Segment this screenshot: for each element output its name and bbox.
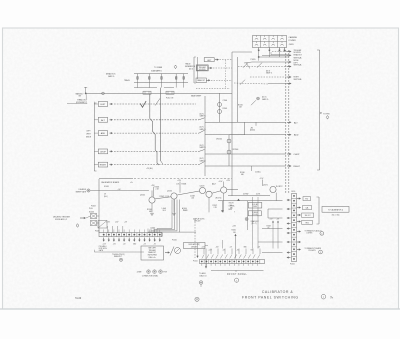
svg-text:4: 4 [321, 233, 322, 235]
svg-text:+15V: +15V [103, 243, 106, 245]
svg-text:(DLY): (DLY) [200, 127, 205, 129]
svg-text:R1011: R1011 [232, 230, 237, 232]
svg-text:VR1564: VR1564 [233, 149, 239, 151]
svg-text:LEFT: LEFT [100, 104, 106, 106]
svg-text:VERTICAL: VERTICAL [294, 64, 302, 67]
svg-text:TO PIN: TO PIN [323, 114, 330, 116]
svg-text:Q1566: Q1566 [167, 190, 172, 192]
svg-text:F1063: F1063 [91, 206, 96, 208]
svg-text:FOR S/DIV: FOR S/DIV [99, 248, 108, 250]
svg-text:+5V: +5V [143, 243, 146, 245]
svg-text:+2V (B-L): +2V (B-L) [146, 168, 153, 170]
svg-text:Q1564: Q1564 [140, 194, 145, 196]
svg-text:TRIGGER: TRIGGER [149, 250, 157, 252]
svg-text:680: 680 [230, 208, 233, 210]
svg-text:READOUT: READOUT [294, 53, 302, 56]
svg-text:P1016: P1016 [172, 240, 177, 242]
svg-text:SIG: SIG [251, 250, 253, 252]
svg-text:P.LIGHTS: P.LIGHTS [309, 250, 316, 252]
svg-text:(P.L.-B): (P.L.-B) [252, 214, 258, 216]
svg-text:R1564: R1564 [147, 209, 152, 211]
svg-text:R1560: R1560 [240, 172, 245, 174]
svg-text:+R0: +R0 [250, 127, 253, 129]
svg-text:(DLY): (DLY) [200, 113, 205, 115]
svg-text:SWITCHING: SWITCHING [148, 255, 158, 257]
svg-text:LIGHTS: LIGHTS [307, 233, 313, 235]
svg-text:FRONT PANEL SWITCHING: FRONT PANEL SWITCHING [242, 296, 299, 300]
svg-text:SEE LEFT: SEE LEFT [148, 247, 156, 249]
svg-text:R-ON/TC: R-ON/TC [276, 186, 283, 188]
svg-text:ADD: ADD [294, 134, 299, 137]
svg-text:(X0.1 / X1): (X0.1 / X1) [332, 214, 340, 216]
svg-text:PULL ON: PULL ON [166, 98, 174, 100]
svg-text:P1095: P1095 [251, 59, 256, 61]
svg-text:PULL: PULL [89, 208, 93, 210]
svg-text:P1011: P1011 [193, 261, 198, 263]
svg-text:CALIBRATOR &: CALIBRATOR & [262, 290, 294, 294]
svg-text:(DLY): (DLY) [189, 68, 194, 70]
svg-text:30.3: 30.3 [163, 210, 166, 212]
svg-text:INT: INT [78, 95, 81, 97]
svg-text:P1051: P1051 [290, 264, 295, 266]
svg-text:Q1570: Q1570 [200, 185, 205, 187]
svg-text:(P.L.-7): (P.L.-7) [251, 223, 257, 225]
svg-text:.001: .001 [191, 198, 194, 200]
svg-text:P50: P50 [305, 199, 308, 201]
svg-text:+5V: +5V [223, 250, 226, 252]
svg-text:S1063: S1063 [104, 186, 109, 188]
svg-text:-5V: -5V [237, 250, 239, 252]
svg-text:R1568: R1568 [182, 184, 187, 186]
svg-text:R1566: R1566 [155, 187, 160, 189]
svg-text:<1>: <1> [130, 181, 133, 184]
svg-text:-5V: -5V [154, 243, 156, 245]
svg-text:DELAYED TRIGGER: DELAYED TRIGGER [53, 216, 71, 219]
svg-text:7: 7 [234, 211, 235, 213]
svg-text:-15V: -15V [113, 243, 116, 245]
svg-text:R1571: R1571 [213, 205, 218, 207]
svg-text:GATE %: GATE % [108, 75, 115, 78]
svg-text:R1565: R1565 [223, 108, 228, 110]
svg-text:+15V: +15V [209, 250, 212, 252]
svg-text:CHOP: CHOP [294, 154, 301, 156]
svg-text:680: 680 [149, 211, 152, 213]
svg-text:S1016: S1016 [151, 227, 156, 229]
svg-text:J1051: J1051 [291, 191, 295, 193]
svg-text:(DLY): (DLY) [200, 145, 205, 147]
svg-text:SOURCE: SOURCE [199, 69, 206, 71]
svg-text:+25V: +25V [202, 247, 205, 249]
svg-text:ADD: ADD [101, 132, 106, 135]
svg-text:R1017: R1017 [267, 226, 272, 228]
svg-text:7A-00: 7A-00 [75, 297, 82, 300]
svg-text:-15V: -15V [216, 247, 219, 249]
svg-text:CIRCUIT: CIRCUIT [191, 247, 197, 249]
svg-text:C1564: C1564 [223, 100, 228, 102]
svg-text:S1063: S1063 [89, 211, 94, 213]
svg-text:+5V: +5V [230, 247, 233, 249]
svg-text:MODE: MODE [86, 137, 92, 139]
svg-text:GND: GND [133, 243, 136, 245]
svg-text:RIGHT: RIGHT [100, 165, 107, 167]
svg-text:1: 1 [236, 280, 237, 282]
svg-text:⅞: ⅞ [330, 296, 333, 300]
svg-text:2000: 2000 [253, 206, 257, 208]
svg-text:LEFT: LEFT [86, 131, 90, 133]
svg-text:CIRCUIT: CIRCUIT [194, 221, 200, 223]
svg-text:CR1564: CR1564 [216, 139, 222, 141]
svg-text:(R1575): (R1575) [216, 197, 222, 199]
svg-text:TO S2AB: TO S2AB [154, 66, 163, 69]
svg-text:FROM A55-1,2: FROM A55-1,2 [55, 218, 67, 221]
svg-text:5: 5 [320, 252, 321, 254]
svg-text:R1556: R1556 [238, 104, 243, 106]
svg-text:RIGHT: RIGHT [294, 166, 301, 168]
svg-text:R1573: R1573 [229, 203, 234, 205]
svg-text:TO CALIBRATOR &: TO CALIBRATOR & [328, 208, 344, 211]
svg-text:Q1571: Q1571 [263, 185, 268, 187]
svg-text:CAMERA: CAMERA [289, 36, 298, 39]
svg-text:TRIGGER: TRIGGER [199, 67, 207, 69]
svg-text:+5V: +5V [123, 243, 126, 245]
svg-text:680: 680 [241, 174, 244, 176]
svg-text:C1568: C1568 [190, 195, 195, 197]
svg-text:TRIG: TRIG [305, 222, 308, 224]
svg-text:45 R/W: 45 R/W [243, 193, 249, 195]
svg-text:(B-L): (B-L) [104, 196, 108, 198]
svg-text:VERT: VERT [86, 134, 90, 136]
svg-text:FRONT PANEL: FRONT PANEL [227, 273, 248, 276]
svg-text:CALIBRATOR BOARD: CALIBRATOR BOARD [101, 181, 120, 184]
svg-text:(DLY): (DLY) [266, 70, 271, 72]
svg-text:GND: GND [244, 247, 247, 249]
svg-text:DIAG <1>: DIAG <1> [200, 275, 208, 278]
svg-text:(DLY): (DLY) [200, 158, 205, 160]
svg-text:VERTICAL: VERTICAL [294, 78, 302, 81]
svg-text:& SEE: & SEE [137, 272, 142, 274]
svg-text:TO A100: TO A100 [199, 272, 206, 275]
svg-text:TRACE: TRACE [124, 79, 131, 82]
svg-text:P1015: P1015 [95, 230, 100, 232]
svg-text:J1095: J1095 [289, 44, 294, 46]
svg-text:C1560a: C1560a [255, 171, 261, 173]
svg-text:POWER: POWER [289, 40, 297, 42]
svg-text:R011: R011 [229, 209, 233, 211]
svg-text:GATE %: GATE % [262, 98, 269, 101]
svg-text:CHOP: CHOP [100, 152, 107, 154]
svg-text:SIG OUT: SIG OUT [305, 215, 311, 217]
